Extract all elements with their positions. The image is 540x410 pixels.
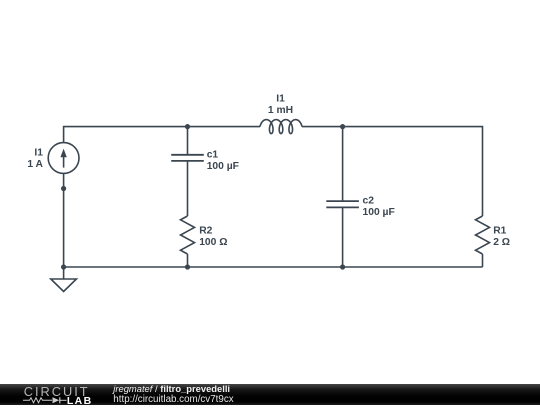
svg-text:jregmatef / filtro_prevedelli: jregmatef / filtro_prevedelli	[111, 383, 230, 394]
wire c2 top	[342, 127, 344, 202]
node bottom c2 junction	[340, 264, 345, 269]
svg-text:http://circuitlab.com/cv7t9cx: http://circuitlab.com/cv7t9cx	[113, 394, 233, 405]
logo CIRCUIT text	[24, 384, 89, 399]
logo resistor zigzag	[23, 398, 52, 403]
wire right bottom	[482, 254, 484, 267]
node ground junction	[61, 264, 66, 269]
wire R2 bottom	[187, 254, 189, 267]
logo diode	[53, 397, 67, 403]
svg-text:LAB: LAB	[67, 395, 92, 405]
logo LAB text	[67, 395, 92, 407]
label C2	[363, 196, 395, 219]
footer bar	[0, 384, 540, 405]
node top c2 junction	[340, 124, 345, 129]
capacitor C2	[326, 201, 359, 207]
svg-text:100 µF: 100 µF	[207, 161, 239, 172]
svg-text:1 A: 1 A	[27, 159, 43, 170]
wire bottom	[64, 266, 483, 268]
svg-text:2 Ω: 2 Ω	[493, 237, 510, 248]
svg-text:100 Ω: 100 Ω	[199, 237, 227, 248]
inductor L1 coil	[260, 120, 302, 134]
svg-text:R2: R2	[199, 226, 212, 237]
wire c1 top	[187, 127, 189, 155]
svg-text:c2: c2	[363, 196, 375, 207]
resistor R1	[476, 216, 490, 254]
node top c1 junction	[185, 124, 190, 129]
svg-text:I1: I1	[276, 93, 285, 104]
wire top right horizontal	[302, 127, 483, 216]
svg-text:c1: c1	[207, 150, 219, 161]
label L1 inductor	[268, 93, 293, 116]
svg-text:I1: I1	[34, 148, 43, 159]
svg-text:1 mH: 1 mH	[268, 105, 293, 116]
wire c2 bottom	[342, 207, 344, 267]
svg-text:100 µF: 100 µF	[363, 207, 395, 218]
footer title text	[111, 383, 233, 405]
label C1	[207, 150, 239, 173]
current source I1	[48, 143, 79, 174]
wire top left horizontal	[64, 127, 260, 143]
node bottom c1 junction	[185, 264, 190, 269]
node below source	[61, 186, 66, 191]
label I1 source	[27, 148, 43, 171]
wire c1 to R2	[187, 161, 189, 216]
wire source to bottom	[63, 173, 65, 267]
svg-text:R1: R1	[493, 226, 506, 237]
label R1	[493, 226, 510, 249]
capacitor C1	[171, 155, 204, 161]
ground	[51, 267, 77, 292]
resistor R2	[181, 216, 195, 254]
label R2	[199, 226, 227, 249]
